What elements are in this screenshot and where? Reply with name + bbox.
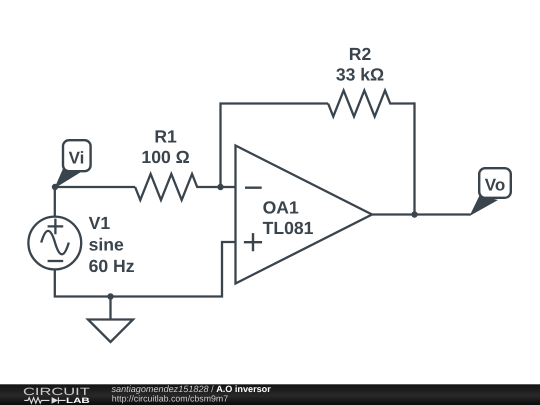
node flag Vo [470,168,511,216]
junction dot: output node [411,211,417,217]
voltage source V1 [28,217,81,270]
wire: V1 top lead [54,186,56,217]
svg-text:33 kΩ: 33 kΩ [336,64,384,84]
resistor R1 [135,174,220,200]
svg-text:R1: R1 [154,127,177,147]
svg-text:TL081: TL081 [263,218,314,238]
footer bar [0,384,540,405]
resistor R2 [328,91,414,117]
wire: feedback from node A up and right to R2 [221,104,329,188]
wire: R1 right to op-amp inverting input [221,186,236,188]
svg-text:60 Hz: 60 Hz [89,256,135,276]
ground [88,297,133,343]
wire: op-amp output to Vo flag [372,213,471,215]
op-amp OA1 non-inverting input marker [244,233,262,251]
svg-text:Vi: Vi [69,149,85,168]
svg-text:100 Ω: 100 Ω [141,147,189,167]
junction dot: ground rail [107,293,113,299]
wire: V1 bottom lead + bottom rail + non-inverting input riser [55,242,236,297]
junction dot: node Vi / V1 top [52,184,58,190]
CircuitLab logo [23,386,91,405]
svg-text:LAB: LAB [66,396,90,405]
svg-text:OA1: OA1 [263,198,299,218]
op-amp OA1 inverting input marker [245,186,262,188]
svg-text:R2: R2 [349,44,372,64]
wire: feedback right vertical down to output node [413,102,415,214]
wire: Vi node to R1 left lead (y=187) [55,186,135,188]
svg-text:Vo: Vo [485,176,505,195]
node flag Vi [54,140,90,188]
svg-text:V1: V1 [89,213,111,233]
junction dot: node A (inverting input) [217,184,223,190]
svg-text:sine: sine [89,235,124,255]
op-amp OA1 [236,146,373,284]
svg-text:http://circuitlab.com/cbsm9m7: http://circuitlab.com/cbsm9m7 [112,394,228,404]
